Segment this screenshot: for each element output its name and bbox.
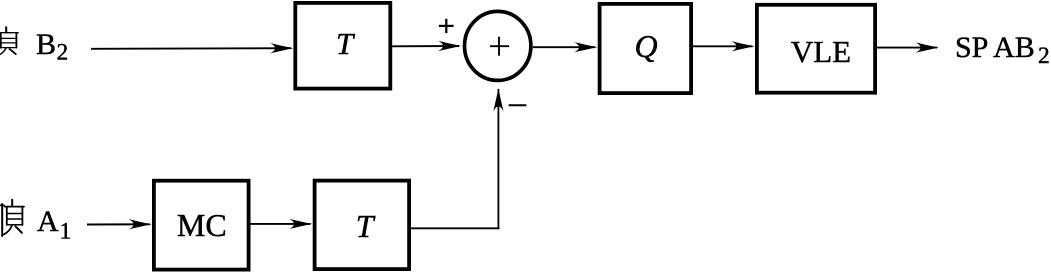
arrowhead into T1	[270, 43, 294, 53]
wire input to T1	[91, 47, 291, 50]
minus sign label	[509, 104, 527, 106]
svg-text:B: B	[36, 28, 56, 61]
plus sign inside summer	[490, 37, 509, 56]
label frame B2 (partial 帧)	[0, 27, 18, 57]
label frame A1 (partial 帧)	[0, 200, 24, 236]
plus sign label above summer	[439, 19, 454, 33]
wire T1 to summer	[392, 45, 459, 47]
arrowhead into T2	[289, 219, 313, 229]
svg-text:1: 1	[60, 219, 72, 245]
arrowhead into MC	[129, 219, 153, 229]
block MC	[154, 181, 249, 270]
block T2	[315, 181, 410, 270]
block T1	[295, 3, 390, 89]
svg-text:VLE: VLE	[791, 34, 851, 69]
svg-text:T: T	[356, 208, 376, 244]
block Q	[600, 4, 692, 93]
wire MC to T2	[251, 223, 311, 225]
arrowhead into VLE	[731, 41, 755, 51]
svg-text:2: 2	[1038, 43, 1050, 69]
summing junction circle	[465, 11, 531, 80]
arrowhead up into summer bottom	[493, 88, 503, 112]
feedback wire vertical up to summer	[497, 89, 499, 229]
svg-text:A: A	[37, 205, 59, 238]
output arrowhead	[916, 42, 940, 52]
svg-text:T: T	[336, 26, 356, 61]
arrowhead into Q	[574, 42, 598, 52]
svg-text:Q: Q	[634, 28, 657, 64]
wire input to MC	[87, 223, 150, 225]
svg-text:2: 2	[57, 40, 69, 66]
wire summer to Q	[533, 46, 595, 48]
block VLE	[757, 5, 875, 93]
svg-text:MC: MC	[177, 207, 227, 243]
wire VLE to output	[877, 47, 937, 49]
feedback wire horizontal from T2	[411, 227, 499, 229]
wire Q to VLE	[693, 45, 753, 47]
arrowhead into summer left	[438, 41, 462, 51]
svg-text:SP AB: SP AB	[955, 31, 1035, 64]
